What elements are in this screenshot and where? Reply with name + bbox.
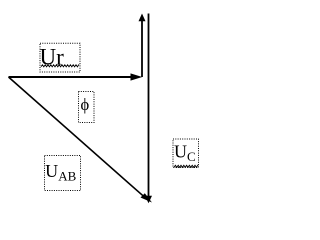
- svg-text:U: U: [45, 161, 58, 181]
- label box Ur (dotted text box with wavy underline): [40, 43, 81, 72]
- svg-text:AB: AB: [58, 169, 76, 184]
- phasor arrow UL (vertical, pointing up): [139, 14, 146, 78]
- phasor arrow UC (long vertical, pointing down): [145, 14, 152, 204]
- svg-text:ϕ: ϕ: [81, 95, 90, 114]
- label box phi (dotted text box with angle symbol): [79, 92, 95, 123]
- label box UAB (dotted text box): [45, 156, 81, 191]
- svg-text:U: U: [174, 142, 187, 162]
- label box UC (dotted text box with wavy underline): [173, 139, 199, 168]
- svg-text:C: C: [187, 149, 196, 164]
- phasor arrow UAB (diagonal, pointing down-right): [9, 77, 153, 203]
- phasor arrow Ur (horizontal, pointing right): [9, 73, 143, 80]
